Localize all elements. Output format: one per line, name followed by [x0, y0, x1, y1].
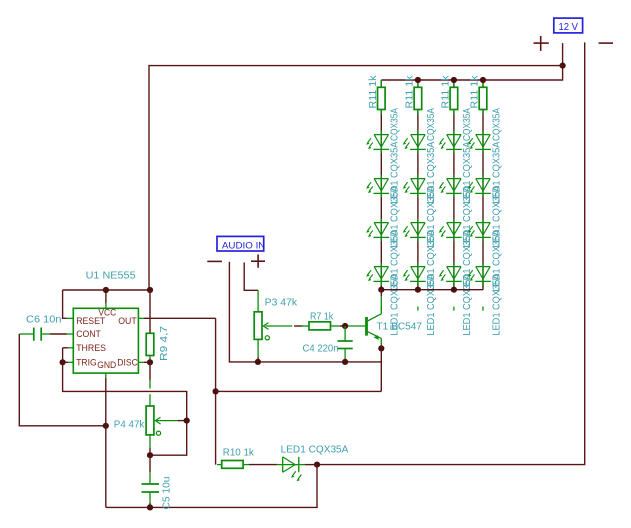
wire ground drop right [316, 465, 318, 508]
svg-text:12 V: 12 V [558, 22, 578, 33]
svg-text:R11 1k: R11 1k [368, 74, 379, 108]
capacitor C5 10u [142, 484, 160, 503]
wire LED matrix bottom bus [381, 289, 483, 291]
resistor R11 1k (column 3) [450, 87, 458, 109]
svg-text:P3 47k: P3 47k [265, 298, 298, 309]
LED D15 CQX35A (col 4 row 2) [468, 179, 491, 194]
wire R9 bottom to DISC node [149, 359, 151, 363]
LED D10 CQX35A (col 3 row 1) [439, 135, 462, 150]
svg-text:LED1 CQX35A: LED1 CQX35A [426, 273, 437, 335]
node VCC feed junction [147, 287, 153, 293]
wire R7 to base node [340, 325, 345, 327]
svg-text:AUDIO IN: AUDIO IN [222, 240, 266, 251]
supply label 12 V [554, 18, 583, 33]
svg-text:R11 1k: R11 1k [440, 74, 451, 108]
wire bottom ground rail [106, 506, 318, 508]
node DISC junction [147, 359, 153, 365]
svg-text:R11 1k: R11 1k [404, 74, 415, 108]
node bus junction col3 [451, 77, 457, 83]
node bottom bus col3 [451, 287, 457, 293]
svg-text:P4 47k: P4 47k [114, 420, 145, 431]
wire OUT pin to right [138, 317, 144, 319]
wire LED column 3 [453, 80, 455, 290]
wire OUT return line to emitter [216, 390, 382, 392]
svg-text:TRIG: TRIG [76, 358, 96, 368]
resistor R7 1k [302, 322, 340, 330]
minus terminal of 12 V supply [599, 42, 613, 44]
svg-text:CONT: CONT [76, 329, 101, 339]
wire LED1 cathode to minus-rail node [305, 464, 317, 466]
svg-text:CQX35A: CQX35A [491, 108, 502, 141]
svg-text:CQX35A: CQX35A [462, 108, 473, 141]
svg-text:LED1 CQX35A: LED1 CQX35A [491, 273, 502, 335]
svg-text:R7 1k: R7 1k [310, 312, 334, 323]
wire VCC horizontal to RESET [63, 289, 150, 291]
resistor R9 4,7 [146, 333, 154, 358]
op-amp / timer U1 NE555 box [73, 308, 138, 373]
svg-text:DISC: DISC [117, 358, 138, 368]
node bus junction col4 [480, 77, 486, 83]
wire audio minus drop [228, 262, 230, 363]
node C5 ground junction [147, 504, 153, 510]
wire LED column 4 [482, 80, 484, 290]
wire 12V minus drop [584, 42, 586, 464]
wire C5 bottom to ground rail [149, 503, 151, 507]
svg-text:R9 4,7: R9 4,7 [159, 325, 170, 361]
svg-text:LED1 CQX35A: LED1 CQX35A [462, 273, 473, 335]
LED D7 CQX35A (col 2 row 2) [403, 179, 426, 194]
node C6 ground junction [103, 423, 109, 429]
wire THRES stub [68, 347, 73, 349]
wire top feed rail to NE555 VCC column [149, 65, 563, 67]
svg-text:GND: GND [97, 360, 116, 370]
wire RESET loop [63, 290, 67, 318]
svg-text:C5 10u: C5 10u [162, 477, 173, 510]
wire R10 to LED1 [249, 464, 277, 466]
capacitor C6 10n [19, 328, 41, 341]
wire audio common line to emitter column [229, 361, 381, 363]
wire P4 wiper to frame [178, 420, 187, 422]
svg-text:C6 10n: C6 10n [26, 315, 62, 326]
wire from 12V plus down to feed node [562, 43, 564, 81]
svg-text:CQX35A: CQX35A [390, 108, 401, 141]
node P4 bottom junction [147, 452, 153, 458]
LED D14 CQX35A (col 4 row 1) [468, 135, 491, 150]
transistor Q T1 BC547 [345, 314, 381, 345]
wire minus rail to LED1 cathode [317, 464, 585, 466]
svg-text:T1 BC547: T1 BC547 [377, 322, 423, 333]
node TRIG junction [60, 359, 66, 365]
LED D11 CQX35A (col 3 row 2) [439, 179, 462, 194]
wire VCC pin up [105, 290, 107, 303]
wire C4 bottom stub [344, 359, 346, 362]
node C4 bottom junction [342, 359, 348, 365]
svg-text:LED1 CQX35A: LED1 CQX35A [281, 445, 349, 456]
LED D1 LED1 CQX35A [283, 457, 305, 481]
potentiometer P4 47k [146, 406, 178, 448]
svg-text:CQX35A: CQX35A [426, 108, 437, 141]
LED D6 CQX35A (col 2 row 1) [403, 135, 426, 150]
node P4 wiper junction [184, 418, 190, 424]
wire P4 bottom node down to C5 [149, 455, 151, 472]
plus terminal of AUDIO IN [251, 255, 265, 268]
svg-text:R10 1k: R10 1k [223, 447, 255, 458]
wire DISC stub [138, 361, 144, 363]
node supply junction [560, 63, 566, 69]
LED D12 CQX35A (col 3 row 3) [439, 223, 462, 238]
wire THRES to TRIG link [62, 348, 64, 363]
svg-text:C4 220n: C4 220n [303, 344, 339, 355]
node VCC pin junction [103, 287, 109, 293]
LED D2 CQX35A (col 1 row 1) [366, 135, 389, 150]
node bottom bus col2 [415, 287, 421, 293]
capacitor C4 220n [338, 326, 353, 359]
node minus rail / ground tap [314, 462, 320, 468]
wire emitter down to OUT return line [380, 345, 382, 391]
resistor R10 1k [217, 461, 249, 469]
LED D4 CQX35A (col 1 row 3) [366, 223, 389, 238]
node bottom bus col1 [378, 287, 384, 293]
wire wiper to R7 [294, 325, 302, 327]
potentiometer P3 47k [254, 312, 292, 357]
svg-text:THRES: THRES [76, 343, 106, 353]
LED D8 CQX35A (col 2 row 3) [403, 223, 426, 238]
wire GND pin down to rail [105, 373, 107, 378]
node OUT return junction [213, 388, 219, 394]
wire LED column 1 [380, 80, 382, 290]
node base junction [342, 323, 348, 329]
node bus junction col2 [415, 77, 421, 83]
node P3 bottom junction [255, 359, 261, 365]
LED D13 CQX35A (col 3 row 4) [439, 267, 462, 282]
minus terminal of AUDIO IN [207, 260, 222, 262]
wire P4 bottom to C5 [149, 448, 151, 455]
wire OUT drop to R10 [215, 318, 217, 464]
node emitter junction [378, 345, 384, 351]
wire resistor bus [381, 79, 562, 81]
wire P3 bottom stub [257, 357, 259, 362]
LED D3 CQX35A (col 1 row 2) [366, 179, 389, 194]
resistor R11 1k (column 1) [378, 87, 386, 109]
wire left feed drop to VCC node [148, 65, 150, 290]
wire VCC node down through R9 to DISC [149, 290, 151, 333]
wire CONT pin to C6 [41, 333, 50, 335]
svg-text:U1 NE555: U1 NE555 [86, 270, 136, 281]
svg-text:RESET: RESET [76, 316, 105, 326]
LED D16 CQX35A (col 4 row 3) [468, 223, 491, 238]
resistor R11 1k (column 2) [414, 87, 422, 109]
wire TRIG stub [68, 361, 73, 363]
plus terminal of 12 V supply [534, 36, 549, 51]
wire LED column 2 [417, 80, 419, 290]
svg-text:OUT: OUT [118, 316, 137, 326]
resistor R11 1k (column 4) [479, 87, 487, 109]
wire collector drop from bottom bus [380, 290, 382, 296]
svg-text:R11 1k: R11 1k [470, 74, 481, 108]
connector label AUDIO IN [217, 236, 265, 251]
LED D5 CQX35A (col 1 row 4) [366, 267, 389, 282]
wire audio plus to P3 top [244, 263, 258, 291]
wire TRIG down and across to P4 wiper frame [63, 362, 187, 455]
wire C6 left to ground [19, 334, 106, 426]
LED D17 CQX35A (col 4 row 4) [468, 267, 491, 282]
wire DISC down to P4 (with crossover gap) [149, 362, 151, 380]
LED D9 CQX35A (col 2 row 4) [403, 267, 426, 282]
